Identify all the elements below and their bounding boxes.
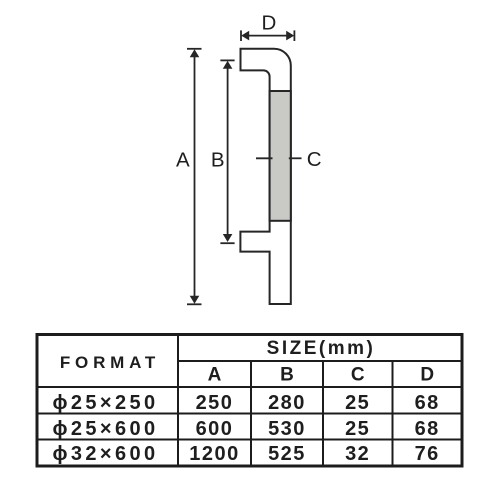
svg-text:B: B (211, 149, 225, 172)
svg-text:68: 68 (415, 418, 440, 440)
svg-text:C: C (307, 148, 322, 171)
svg-text:600: 600 (196, 418, 234, 440)
svg-text:32: 32 (345, 443, 370, 465)
svg-text:A: A (208, 365, 222, 386)
svg-text:1200: 1200 (189, 443, 240, 465)
svg-text:525: 525 (268, 443, 306, 465)
svg-text:B: B (280, 365, 294, 386)
svg-text:A: A (176, 149, 190, 172)
svg-text:76: 76 (415, 443, 440, 465)
svg-text:ϕ25×600: ϕ25×600 (52, 418, 158, 440)
svg-text:280: 280 (268, 392, 306, 414)
svg-text:ϕ32×600: ϕ32×600 (52, 443, 158, 465)
svg-text:68: 68 (415, 392, 440, 414)
svg-text:SIZE(mm): SIZE(mm) (267, 338, 376, 359)
svg-text:ϕ25×250: ϕ25×250 (52, 392, 158, 414)
svg-text:25: 25 (345, 418, 370, 440)
svg-text:C: C (351, 365, 365, 386)
svg-text:25: 25 (345, 392, 370, 414)
svg-text:530: 530 (268, 418, 306, 440)
svg-text:FORMAT: FORMAT (60, 353, 160, 372)
svg-text:D: D (261, 11, 276, 34)
svg-text:250: 250 (196, 392, 234, 414)
svg-text:D: D (420, 365, 434, 386)
